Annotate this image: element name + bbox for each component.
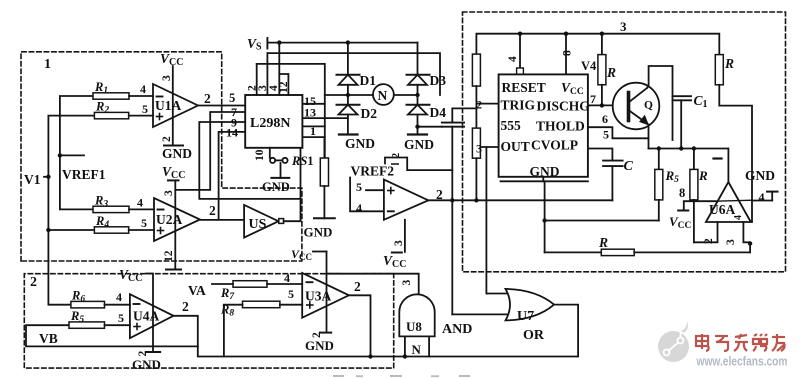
svg-text:D2: D2 (361, 106, 378, 121)
svg-text:N: N (378, 88, 388, 103)
svg-text:R: R (698, 168, 708, 183)
svg-text:5: 5 (603, 128, 609, 142)
svg-text:4: 4 (507, 56, 519, 62)
svg-text:D4: D4 (430, 105, 447, 120)
svg-text:CVOLP: CVOLP (531, 138, 578, 153)
svg-text:D1: D1 (360, 73, 377, 88)
svg-text:OR: OR (523, 328, 545, 343)
svg-text:5: 5 (118, 311, 124, 325)
svg-text:3: 3 (161, 75, 173, 81)
svg-text:D3: D3 (430, 73, 447, 88)
svg-text:3: 3 (620, 19, 627, 34)
svg-text:8: 8 (562, 50, 574, 56)
svg-text:7: 7 (590, 92, 596, 106)
svg-text:U4A: U4A (133, 309, 159, 324)
svg-text:12: 12 (278, 81, 290, 93)
svg-text:4: 4 (356, 201, 362, 215)
svg-text:GND: GND (530, 164, 560, 179)
svg-text:14: 14 (226, 126, 238, 140)
svg-text:TRIG: TRIG (501, 98, 536, 113)
svg-text:2: 2 (391, 153, 402, 158)
svg-text:3: 3 (393, 240, 405, 246)
svg-text:4: 4 (284, 271, 290, 285)
svg-text:VREF1: VREF1 (62, 167, 106, 182)
svg-text:555: 555 (501, 118, 522, 133)
svg-text:U6A: U6A (709, 202, 735, 217)
svg-text:V1: V1 (24, 172, 41, 187)
svg-text:GND: GND (305, 338, 334, 353)
svg-text:4: 4 (759, 190, 765, 204)
svg-text:13: 13 (304, 106, 316, 120)
svg-text:GND: GND (345, 136, 375, 151)
svg-text:1: 1 (310, 124, 316, 138)
svg-text:4: 4 (140, 82, 146, 96)
svg-text:2: 2 (209, 203, 216, 218)
svg-text:L298N: L298N (250, 116, 290, 131)
svg-text:6: 6 (602, 112, 608, 126)
svg-text:8: 8 (679, 186, 685, 200)
svg-text:2: 2 (182, 299, 189, 314)
svg-text:VREF2: VREF2 (351, 164, 395, 179)
svg-text:R: R (724, 56, 734, 71)
svg-text:US: US (249, 217, 267, 232)
svg-text:2: 2 (311, 332, 323, 338)
svg-text:2: 2 (161, 136, 173, 142)
svg-text:V4: V4 (581, 59, 597, 73)
svg-text:C: C (624, 159, 634, 174)
svg-text:GND: GND (745, 168, 775, 183)
svg-text:R: R (606, 65, 616, 80)
svg-text:GND: GND (162, 146, 192, 161)
svg-text:4: 4 (137, 196, 143, 210)
svg-text:5: 5 (141, 216, 147, 230)
svg-text:GND: GND (132, 357, 161, 372)
svg-text:2: 2 (204, 91, 211, 106)
svg-text:2: 2 (30, 275, 37, 290)
svg-text:2: 2 (476, 98, 482, 112)
svg-text:3: 3 (163, 190, 175, 196)
svg-text:U1A: U1A (155, 98, 181, 113)
svg-text:Q: Q (644, 100, 653, 112)
svg-text:VA: VA (188, 283, 206, 298)
svg-text:2: 2 (703, 238, 715, 244)
svg-text:5: 5 (356, 180, 362, 194)
svg-text:3: 3 (476, 142, 482, 156)
svg-text:2: 2 (137, 351, 149, 357)
svg-text:4: 4 (733, 215, 744, 220)
svg-text:OUT: OUT (501, 139, 530, 154)
svg-text:VB: VB (39, 331, 58, 346)
svg-text:GND: GND (304, 225, 333, 240)
svg-text:3: 3 (401, 280, 413, 286)
svg-text:www.elecfans.com: www.elecfans.com (696, 354, 788, 369)
svg-text:5: 5 (142, 102, 148, 116)
svg-text:AND: AND (442, 322, 472, 337)
svg-text:R: R (598, 235, 608, 250)
svg-text:12: 12 (163, 250, 175, 262)
svg-text:2: 2 (354, 279, 361, 294)
svg-text:DISCHG: DISCHG (537, 99, 591, 114)
svg-text:N: N (412, 342, 422, 357)
svg-text:THOLD: THOLD (536, 119, 585, 134)
svg-text:GND: GND (262, 180, 290, 194)
svg-text:5: 5 (288, 287, 294, 301)
svg-text:3: 3 (725, 239, 737, 245)
svg-text:10: 10 (254, 149, 266, 161)
svg-text:U2A: U2A (156, 212, 182, 227)
svg-text:5: 5 (229, 91, 235, 105)
svg-text:2: 2 (436, 187, 443, 202)
svg-text:RS1: RS1 (291, 154, 314, 168)
svg-text:U8: U8 (406, 319, 422, 334)
svg-text:RESET: RESET (502, 80, 546, 95)
svg-text:4: 4 (116, 290, 122, 304)
svg-text:U3A: U3A (305, 289, 331, 304)
svg-text:GND: GND (404, 137, 434, 152)
svg-text:U7: U7 (517, 309, 534, 324)
svg-text:1: 1 (44, 57, 51, 72)
